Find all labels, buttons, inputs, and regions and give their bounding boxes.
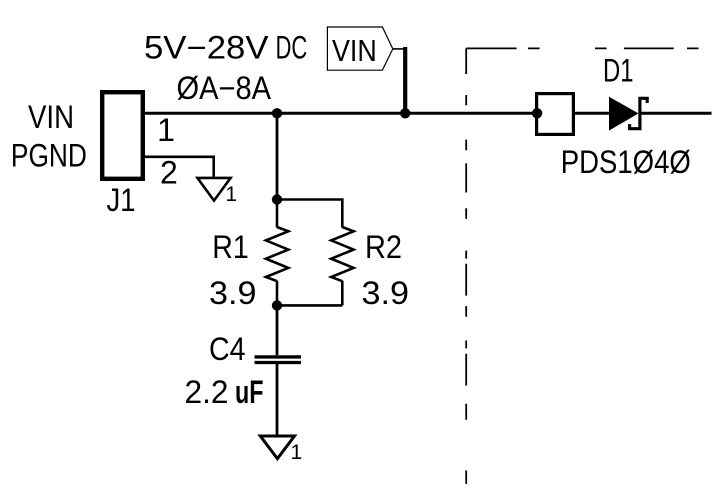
node junction at square box (532, 108, 542, 118)
net flag VIN (327, 27, 392, 70)
svg-text:R2: R2 (365, 229, 402, 265)
svg-text:2: 2 (160, 155, 178, 191)
svg-text:VIN: VIN (28, 99, 74, 135)
ground GND1 lower (260, 436, 294, 459)
node junction main/resistor branch (272, 108, 282, 118)
svg-text:PGND: PGND (11, 138, 87, 174)
dashed block boundary vertical (465, 48, 467, 484)
resistor R2 (331, 227, 353, 281)
svg-text:1: 1 (157, 112, 175, 148)
svg-text:DC: DC (276, 29, 308, 65)
svg-text:C4: C4 (209, 331, 246, 367)
svg-text:D1: D1 (603, 52, 634, 88)
node junction resistor bottom (272, 300, 282, 310)
svg-text:3.9: 3.9 (209, 275, 257, 311)
wire R2 top connection (277, 200, 342, 228)
svg-text:2.2: 2.2 (185, 374, 229, 410)
wire flag stub (393, 48, 404, 50)
ground GND1 upper (197, 178, 230, 201)
svg-text:5V−28V: 5V−28V (144, 29, 269, 65)
svg-text:1: 1 (225, 183, 237, 206)
svg-text:uF: uF (235, 374, 264, 410)
node junction resistor top (272, 194, 282, 204)
wire R1 top lead (276, 200, 279, 228)
wire diode cathode to right edge (641, 112, 711, 115)
wire square-box to diode anode (575, 112, 609, 115)
wire C4 top lead (276, 306, 279, 356)
svg-text:VIN: VIN (332, 33, 377, 68)
capacitor C4 (255, 355, 302, 358)
wire R2 bottom connection (277, 281, 342, 306)
diode D1 schottky cathode bar (630, 98, 648, 128)
square box component (537, 94, 574, 135)
svg-text:ØA−8A: ØA−8A (177, 70, 272, 106)
wire main horizontal net VIN (145, 112, 535, 115)
svg-text:1: 1 (291, 441, 303, 464)
wire R1 bottom lead (276, 281, 279, 306)
resistor R1 (266, 227, 288, 281)
wire branch down to resistors (276, 113, 279, 199)
wire flag vertical drop (403, 47, 407, 113)
connector J1 body (102, 92, 143, 179)
svg-text:PDS1Ø4Ø: PDS1Ø4Ø (561, 144, 691, 180)
svg-text:R1: R1 (212, 229, 249, 265)
node junction at VIN drop (400, 108, 410, 118)
diode D1 anode triangle (609, 97, 639, 131)
dashed block boundary horizontal (466, 47, 698, 49)
svg-text:J1: J1 (107, 182, 136, 218)
wire C4 bottom lead (276, 364, 279, 435)
svg-text:3.9: 3.9 (362, 275, 410, 311)
wire J1 pin2 (145, 157, 214, 177)
